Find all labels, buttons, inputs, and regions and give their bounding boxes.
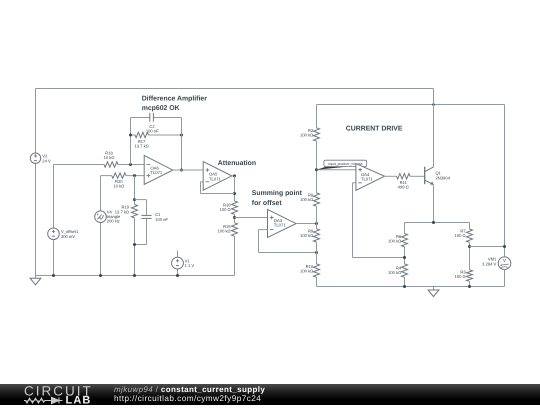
svg-text:100 kΩ: 100 kΩ xyxy=(300,197,313,202)
svg-text:150 Ω: 150 Ω xyxy=(455,274,466,279)
svg-text:100 kΩ: 100 kΩ xyxy=(300,233,313,238)
svg-text:13.7 kΩ: 13.7 kΩ xyxy=(134,144,148,149)
svg-text:100 kΩ: 100 kΩ xyxy=(218,229,231,234)
svg-text:100 kΩ: 100 kΩ xyxy=(300,268,313,273)
svg-text:3.284 V: 3.284 V xyxy=(482,262,496,267)
svg-text:TL071: TL071 xyxy=(150,170,163,175)
svg-text:100 nF: 100 nF xyxy=(155,217,168,222)
svg-text:10 kΩ: 10 kΩ xyxy=(113,184,124,189)
svg-text:TL071: TL071 xyxy=(361,177,374,182)
svg-text:100 kΩ: 100 kΩ xyxy=(388,239,401,244)
svg-text:100 Ω: 100 Ω xyxy=(220,207,231,212)
svg-text:100 kΩ: 100 kΩ xyxy=(300,133,313,138)
svg-text:TL071: TL071 xyxy=(209,176,222,181)
svg-text:200 Hz: 200 Hz xyxy=(107,219,120,224)
svg-text:100 kΩ: 100 kΩ xyxy=(388,270,401,275)
svg-text:499 Ω: 499 Ω xyxy=(398,185,409,190)
svg-text:10 kΩ: 10 kΩ xyxy=(104,155,115,160)
svg-text:V: V xyxy=(503,258,506,263)
svg-text:13.7 kΩ: 13.7 kΩ xyxy=(115,209,129,214)
svg-text:2N3904: 2N3904 xyxy=(436,175,451,180)
svg-text:for offset: for offset xyxy=(252,200,283,207)
svg-text:mcp602 OK: mcp602 OK xyxy=(142,105,180,112)
svg-text:LAB: LAB xyxy=(66,395,92,405)
svg-text:CURRENT DRIVE: CURRENT DRIVE xyxy=(346,126,403,133)
svg-text:300 mV: 300 mV xyxy=(61,234,75,239)
svg-text:http://circuitlab.com/cymw2fy9: http://circuitlab.com/cymw2fy9p7c24 xyxy=(114,394,261,403)
svg-text:mjkuwp94 / constant_current_su: mjkuwp94 / constant_current_supply xyxy=(114,385,265,394)
svg-text:Summing point: Summing point xyxy=(252,190,303,197)
svg-text:Attenuation: Attenuation xyxy=(218,160,256,167)
svg-text:100 Ω: 100 Ω xyxy=(455,233,466,238)
svg-text:24 V: 24 V xyxy=(42,158,51,163)
svg-text:TL071: TL071 xyxy=(274,223,287,228)
svg-text:1.1 V: 1.1 V xyxy=(185,263,195,268)
svg-text:Difference Amplifier: Difference Amplifier xyxy=(142,96,208,103)
